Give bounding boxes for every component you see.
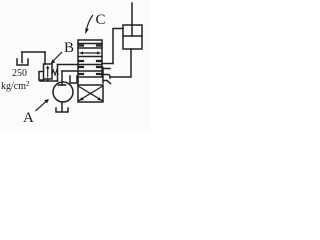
valve stack C body bbox=[78, 40, 102, 77]
svg-text:250: 250 bbox=[12, 68, 27, 79]
cylinder piston line bbox=[123, 35, 142, 37]
wire stack left port P2 (pump line) bbox=[62, 70, 78, 72]
label B arrow bbox=[54, 53, 62, 61]
stack divider 2 bbox=[78, 47, 102, 49]
label A arrow bbox=[36, 102, 46, 111]
stack marks section4 bbox=[79, 66, 101, 68]
wire relief drain up bbox=[44, 52, 46, 64]
stack left edge to X box bbox=[77, 77, 79, 85]
label C arrow bbox=[87, 16, 93, 29]
pump outlet bar bbox=[59, 84, 66, 86]
wire main junction vertical bbox=[57, 65, 59, 82]
svg-text:B: B bbox=[64, 40, 74, 56]
cylinder rod inside bbox=[131, 25, 133, 36]
wire stack right port to cylinder bbox=[102, 63, 113, 65]
stack divider 3 bbox=[78, 56, 102, 58]
relief valve pilot bracket bbox=[39, 72, 44, 81]
drain tank bbox=[17, 59, 28, 65]
svg-text:kg/cm2: kg/cm2 bbox=[1, 80, 30, 92]
pump A circle bbox=[53, 82, 73, 102]
X arrowheads bbox=[80, 97, 102, 101]
stack marks top section bbox=[79, 44, 101, 46]
stack divider 1 bbox=[78, 43, 102, 45]
svg-text:C: C bbox=[96, 12, 106, 28]
wire relief bottom stub bbox=[47, 79, 49, 81]
svg-text:A: A bbox=[23, 110, 34, 126]
wire stack left port P1 bbox=[58, 64, 79, 66]
stack arrow section2 bbox=[80, 52, 100, 54]
wire relief bottom line bbox=[40, 80, 58, 82]
relief valve arrow bbox=[47, 67, 49, 77]
wire drain down to tank bbox=[21, 52, 23, 63]
check-valve R shape right of stack bbox=[102, 68, 104, 84]
stack marks section5 bbox=[79, 73, 101, 75]
wire pump outlet bbox=[61, 71, 63, 85]
relief valve spring bbox=[52, 70, 58, 75]
stack marks section3 bbox=[79, 60, 101, 62]
pump tank bbox=[56, 108, 68, 112]
X diagonal 2 bbox=[79, 87, 102, 101]
stack divider 4 bbox=[78, 64, 102, 66]
cylinder body bbox=[123, 25, 142, 49]
wire cylinder left port bbox=[113, 29, 123, 64]
cylinder rod bbox=[131, 3, 133, 25]
wire drain horizontal bbox=[22, 51, 45, 53]
wire pump suction bbox=[61, 102, 63, 111]
wire cylinder bottom port bbox=[110, 49, 131, 77]
stack divider 5 bbox=[78, 70, 102, 72]
directional valve X box bbox=[78, 85, 103, 102]
X diagonal 1 bbox=[79, 87, 102, 101]
relief valve B body bbox=[44, 64, 53, 79]
stack drain tank bbox=[70, 76, 77, 83]
